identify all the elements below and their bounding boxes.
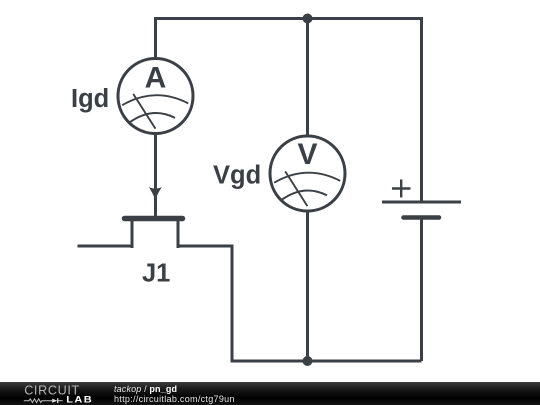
svg-text:Vgd: Vgd — [213, 162, 261, 190]
svg-text:J1: J1 — [142, 259, 170, 287]
svg-text:A: A — [145, 62, 167, 95]
svg-text:LAB: LAB — [66, 395, 93, 405]
svg-text:Igd: Igd — [71, 85, 109, 113]
svg-text:V: V — [297, 138, 317, 171]
